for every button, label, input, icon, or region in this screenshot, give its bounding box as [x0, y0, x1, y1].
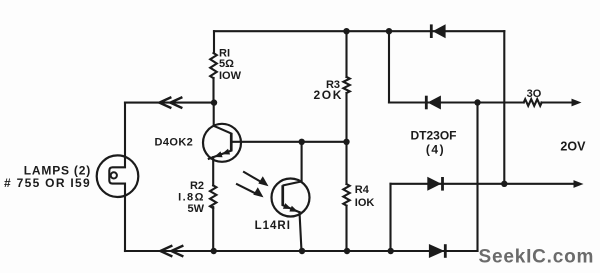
svg-text:SeekIC.com: SeekIC.com: [479, 247, 595, 268]
svg-text:5Ω: 5Ω: [219, 58, 234, 70]
svg-text:# 755 OR I59: # 755 OR I59: [4, 176, 91, 190]
svg-text:R4: R4: [355, 184, 370, 196]
svg-text:2OV: 2OV: [560, 139, 586, 153]
svg-text:5W: 5W: [188, 203, 205, 215]
svg-text:I.8Ω: I.8Ω: [178, 191, 205, 203]
svg-text:3O: 3O: [527, 88, 542, 100]
svg-text:(4): (4): [426, 142, 445, 156]
svg-text:DT23OF: DT23OF: [411, 128, 457, 142]
svg-text:IOW: IOW: [219, 70, 242, 82]
svg-text:R2: R2: [190, 180, 204, 192]
svg-text:IOK: IOK: [355, 197, 375, 209]
svg-text:D4OK2: D4OK2: [155, 137, 194, 149]
svg-text:L14RI: L14RI: [255, 220, 291, 232]
svg-text:2OK: 2OK: [314, 88, 343, 102]
